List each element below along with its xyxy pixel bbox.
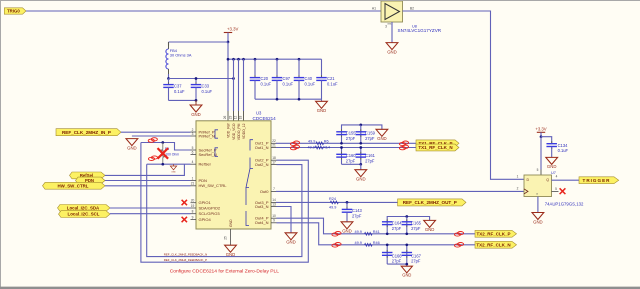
svg-text:GND: GND: [127, 145, 137, 150]
svg-text:0.1uF: 0.1uF: [202, 89, 213, 94]
svg-text:Out4_N: Out4_N: [255, 220, 269, 225]
svg-text:25: 25: [224, 236, 228, 240]
svg-text:C159: C159: [365, 131, 376, 136]
junction: [227, 41, 230, 44]
DNI marker: [454, 232, 463, 237]
svg-text:27pF: 27pF: [365, 136, 375, 141]
net label Local_I2C_SCL: [59, 211, 111, 218]
capacitor C166: [382, 243, 402, 264]
svg-text:C160: C160: [346, 153, 357, 158]
TX2 filter top rail: [386, 215, 430, 235]
capacitor C37: [163, 79, 185, 101]
svg-text:+3.3V: +3.3V: [227, 27, 238, 32]
svg-text:0.1uF: 0.1uF: [261, 81, 272, 86]
svg-text:3: 3: [192, 132, 194, 136]
svg-text:21: 21: [272, 143, 276, 147]
U3 output group brackets: [215, 130, 253, 226]
wire FB4 to caps: [167, 74, 170, 80]
junction: [346, 201, 349, 204]
X no-connect on U7 pin 5: [560, 188, 566, 194]
DNI marker: [332, 232, 341, 237]
wire VDD pin 3: [238, 59, 240, 121]
flip-flop U7: [524, 171, 584, 206]
capacitor C165: [402, 217, 422, 236]
wire Out2_N feedback: [147, 164, 302, 256]
svg-text:GND: GND: [171, 172, 176, 174]
PLL U3: [196, 111, 276, 229]
wire Out4_P jog: [277, 218, 476, 234]
power +3.3V: [535, 126, 546, 138]
pin B2 of U8: [410, 7, 414, 11]
svg-text:C164: C164: [392, 221, 403, 226]
svg-text:TX2_RF_CLK_P: TX2_RF_CLK_P: [476, 231, 510, 236]
svg-text:GND: GND: [356, 177, 366, 182]
net label TX2_RF_CLK_P: [475, 230, 517, 237]
svg-text:1: 1: [517, 175, 519, 179]
DNI marker: [399, 145, 408, 150]
wire Out4_N jog: [277, 223, 476, 245]
svg-text:GND: GND: [547, 164, 557, 169]
svg-text:GND: GND: [425, 227, 435, 232]
svg-text:GND: GND: [377, 136, 387, 141]
net label TRIGGER: [579, 177, 619, 184]
net label REF_CLK_2MHZ_OUT_P: [398, 199, 466, 206]
net name REF_CLK_2MHZ_FEEDBACK_P: [164, 258, 207, 262]
ground for TX2 filter bottom: [401, 266, 412, 277]
svg-text:9: 9: [192, 215, 194, 219]
svg-text:VDDO_PM: VDDO_PM: [237, 123, 241, 140]
power +3.3V: [224, 27, 239, 43]
pin 2 of U7: [517, 187, 519, 191]
wire SCL: [110, 213, 191, 215]
svg-text:13: 13: [272, 202, 276, 206]
wire PriRef_N to gnd: [132, 135, 191, 137]
svg-text:0.1uF: 0.1uF: [174, 89, 185, 94]
ground for C143: [341, 222, 353, 234]
ground for TX1 filter: [376, 129, 388, 141]
svg-text:VDDO_12: VDDO_12: [242, 123, 246, 139]
svg-text:PDN: PDN: [199, 178, 208, 183]
net name REF_CLK_2MHZ_FEEDBACK_N: [164, 252, 207, 256]
svg-text:GND: GND: [286, 240, 296, 245]
svg-text:8: 8: [192, 210, 194, 214]
svg-text:7: 7: [273, 187, 275, 191]
DNI marker: [399, 141, 408, 146]
svg-text:12: 12: [234, 116, 238, 120]
svg-text:REF_CLK_2MHZ_FEEDBACK_P: REF_CLK_2MHZ_FEEDBACK_P: [164, 258, 207, 262]
ground for C134: [546, 157, 558, 169]
svg-text:27pF: 27pF: [411, 226, 421, 231]
wire Out0 to U7 clock: [276, 190, 524, 192]
wire IN_P to PriRef_P: [121, 131, 191, 133]
svg-text:SecRef_N: SecRef_N: [199, 152, 217, 157]
capacitor C159: [356, 125, 376, 145]
capacitor C33: [191, 77, 213, 100]
svg-text:20: 20: [191, 199, 195, 203]
svg-text:GND: GND: [191, 112, 201, 117]
svg-text:SDA/GPIO2: SDA/GPIO2: [199, 205, 221, 210]
U3 X on GPIO4: [182, 217, 187, 222]
wire U8.B to U7.D: [403, 11, 525, 179]
svg-text:9: 9: [273, 219, 275, 223]
net label REF_CLK_2MHZ_IN_P: [56, 129, 121, 136]
ground for PriRef_N: [126, 139, 138, 151]
buffer U8: [381, 1, 442, 33]
wire VDD pin 2: [233, 59, 235, 121]
svg-text:C165: C165: [411, 221, 422, 226]
net label TX1_RF_CLK_P: [416, 140, 459, 147]
wire RefSel tag jog: [105, 164, 184, 175]
svg-text:0.1uF: 0.1uF: [283, 81, 294, 86]
svg-text:49.9: 49.9: [308, 145, 315, 149]
TX1 filter bottom rail: [342, 163, 363, 166]
capacitor C134: [546, 141, 568, 157]
ferrite bead FB4: [166, 42, 192, 74]
svg-text:GND: GND: [533, 219, 543, 224]
note text: [170, 268, 280, 274]
svg-text:VDD_Ref: VDD_Ref: [226, 123, 230, 137]
svg-text:GND: GND: [387, 49, 397, 54]
wire caps bottom: [169, 99, 198, 102]
svg-text:TRIG0: TRIG0: [7, 9, 20, 14]
svg-text:18: 18: [272, 156, 276, 160]
svg-text:1: 1: [192, 176, 194, 180]
resistor R41 49.9: [355, 230, 380, 235]
X no-fit on R9: [158, 148, 169, 159]
resistor R24 49.9: [329, 197, 338, 209]
svg-text:A1: A1: [372, 7, 376, 11]
ground for bypass caps: [316, 99, 328, 113]
pin 5 of U7: [552, 187, 559, 191]
svg-text:C167: C167: [411, 253, 422, 258]
svg-text:49.9: 49.9: [355, 241, 362, 245]
svg-text:U3: U3: [256, 111, 262, 116]
resistor R14 49.9: [308, 145, 330, 149]
svg-text:GPIO4: GPIO4: [199, 217, 212, 222]
svg-text:27pF: 27pF: [346, 136, 356, 141]
svg-text:100 Ohm: 100 Ohm: [165, 153, 179, 157]
TX1 filter top rail: [340, 124, 382, 145]
svg-text:5: 5: [192, 146, 194, 150]
net label TRIG0: [4, 8, 26, 14]
svg-text:4: 4: [556, 175, 558, 179]
wire power vertical: [227, 42, 229, 121]
svg-text:49.9: 49.9: [329, 205, 336, 209]
cap ground rail: [255, 98, 322, 101]
svg-text:GND: GND: [229, 219, 233, 227]
DNI marker: [290, 141, 299, 146]
wire Out3_N to gnd: [277, 207, 292, 233]
svg-text:VDD_VCO: VDD_VCO: [232, 123, 236, 140]
U3 left pins PriRef SecRef RefSel PDN HW_SW_CTRL GPIO: [191, 128, 228, 222]
svg-text:TX2_RF_CLK_N: TX2_RF_CLK_N: [476, 242, 510, 247]
svg-text:5: 5: [555, 187, 557, 191]
svg-text:5: 5: [537, 168, 539, 172]
svg-text:R6: R6: [324, 140, 329, 144]
DNI marker: [148, 156, 157, 161]
ground for Out3_N: [285, 233, 297, 245]
svg-text:GND: GND: [317, 108, 327, 113]
svg-text:SN74LVC1G17YZVR: SN74LVC1G17YZVR: [398, 28, 442, 33]
svg-text:17: 17: [272, 160, 276, 164]
svg-text:TX1_RF_CLK_N: TX1_RF_CLK_N: [418, 145, 452, 150]
svg-text:R24: R24: [329, 197, 336, 201]
svg-text:0.1uF: 0.1uF: [327, 81, 338, 86]
svg-text:Out0: Out0: [260, 189, 269, 194]
pin 1 of U7: [517, 175, 519, 179]
wire Out2_P feedback: [141, 143, 308, 263]
ground for U3: [225, 245, 237, 257]
svg-text:Q: Q: [546, 178, 549, 182]
pin 4 of U7: [552, 175, 580, 181]
ground for U7: [532, 197, 544, 225]
DNI marker: [148, 138, 157, 143]
capacitor C167: [402, 243, 422, 264]
wire TRIG0 to U8.A: [26, 10, 381, 12]
wire Out3_P: [276, 201, 398, 203]
wire HW_SW_CTRL: [105, 185, 191, 187]
svg-text:GND: GND: [402, 272, 411, 277]
svg-text:21: 21: [191, 182, 195, 186]
wire Out1_P: [276, 142, 416, 144]
wire Out1_N: [276, 147, 416, 149]
svg-text:Local_I2C_SCL: Local_I2C_SCL: [68, 212, 100, 217]
svg-text:6: 6: [192, 150, 194, 154]
power rail: [227, 58, 322, 61]
svg-text:GND: GND: [342, 229, 352, 234]
svg-text:18: 18: [239, 116, 243, 120]
capacitor C155: [336, 129, 356, 141]
svg-text:27pF: 27pF: [352, 213, 362, 218]
U3 GND pin 25: [224, 219, 234, 245]
capacitor C20: [250, 59, 272, 99]
net label TX1_RF_CLK_N: [416, 144, 459, 151]
DNI marker: [290, 145, 299, 150]
svg-text:26: 26: [223, 116, 227, 120]
svg-text:B2: B2: [410, 7, 414, 11]
svg-text:REF_CLK_2MHZ_FEEDBACK_N: REF_CLK_2MHZ_FEEDBACK_N: [164, 252, 207, 256]
svg-text:PriRef_N: PriRef_N: [199, 133, 215, 138]
ground for U8: [386, 22, 398, 54]
svg-text:27pF: 27pF: [411, 259, 421, 264]
capacitor C161: [356, 146, 376, 164]
capacitor C164: [382, 219, 402, 231]
svg-text:74AUP1G79GS,132: 74AUP1G79GS,132: [545, 201, 584, 206]
svg-text:TRIGGER: TRIGGER: [583, 178, 611, 183]
wire power to FB4: [169, 42, 229, 46]
svg-text:R14: R14: [323, 145, 330, 149]
capacitor C40: [294, 59, 316, 99]
svg-text:0.1uF: 0.1uF: [305, 81, 316, 86]
capacitor C160: [336, 146, 356, 164]
svg-text:+3.3V: +3.3V: [535, 126, 546, 131]
svg-text:D: D: [527, 178, 530, 182]
U3 X on GPIO1: [182, 200, 187, 205]
svg-text:0.1uF: 0.1uF: [558, 148, 569, 153]
svg-text:GPIO1: GPIO1: [199, 200, 212, 205]
svg-text:R41: R41: [373, 230, 380, 234]
svg-text:SCL/GPIO3: SCL/GPIO3: [199, 211, 221, 216]
wire VDD pin 4: [243, 59, 245, 121]
wire SDA: [110, 207, 191, 209]
svg-text:Out2_N: Out2_N: [255, 162, 269, 167]
svg-text:3: 3: [385, 25, 387, 29]
svg-text:Local_I2C_SDA: Local_I2C_SDA: [67, 205, 100, 210]
svg-text:REF_CLK_2MHZ_IN_P: REF_CLK_2MHZ_IN_P: [62, 130, 111, 135]
svg-text:2: 2: [517, 187, 519, 191]
svg-text:30 Ohms 3A: 30 Ohms 3A: [170, 53, 192, 58]
wire PDN: [105, 180, 191, 182]
capacitor C143: [342, 202, 363, 222]
ground for C37 C33: [190, 100, 202, 116]
svg-text:Out3_N: Out3_N: [255, 204, 269, 209]
wire feedback N to RefSel node: [147, 163, 191, 166]
wire to C134: [541, 137, 552, 144]
resistor R46 49.9: [355, 241, 380, 246]
capacitor C21: [316, 59, 338, 99]
svg-text:49.9: 49.9: [355, 230, 362, 234]
net label PDN: [76, 177, 106, 184]
net label RefSel: [70, 172, 106, 179]
svg-text:REF_CLK_2MHZ_OUT_P: REF_CLK_2MHZ_OUT_P: [403, 200, 457, 205]
net label HW_SW_CTRL: [43, 182, 106, 189]
svg-text:27pF: 27pF: [392, 226, 402, 231]
wire feedback P to SecRef: [141, 141, 191, 150]
DNI marker: [332, 243, 341, 248]
wire cap rail: [169, 77, 235, 80]
svg-text:C155: C155: [346, 131, 357, 136]
svg-text:C166: C166: [392, 253, 403, 258]
net label TX2_RF_CLK_N: [475, 241, 517, 248]
svg-text:10: 10: [272, 214, 276, 218]
resistor R9 100 Ohm: [161, 143, 179, 165]
pin A1 of U8: [372, 7, 376, 11]
U3 top power pins: [223, 116, 246, 141]
U3 right pins Out0 Out1 Out2 Out3 Out4: [255, 139, 277, 225]
svg-text:Out1_N: Out1_N: [255, 145, 269, 150]
TX2 filter bottom rail: [387, 263, 408, 266]
svg-text:49.9: 49.9: [308, 140, 315, 144]
svg-text:27pF: 27pF: [392, 259, 402, 264]
net label Local_I2C_SDA: [58, 205, 111, 212]
ground for TX1 filter bottom: [355, 164, 367, 181]
capacitor C97: [272, 59, 294, 99]
DNI marker: [454, 243, 463, 248]
wire +3.3V to U7 VCC: [537, 137, 541, 175]
svg-text:RefSel: RefSel: [199, 162, 211, 167]
resistor R6 49.9: [308, 140, 329, 145]
svg-text:19: 19: [191, 204, 195, 208]
svg-text:R46: R46: [373, 241, 380, 245]
svg-text:HW_SW_CTRL: HW_SW_CTRL: [199, 183, 228, 188]
svg-text:CDCE6214: CDCE6214: [253, 116, 277, 121]
svg-text:HW_SW_CTRL: HW_SW_CTRL: [58, 183, 89, 188]
svg-text:4: 4: [192, 160, 194, 164]
svg-text:27pF: 27pF: [346, 158, 356, 163]
ground for TX2 filter top: [424, 220, 436, 232]
svg-text:27pF: 27pF: [365, 158, 375, 163]
small ground on RefSel node: [170, 164, 176, 173]
svg-text:C161: C161: [365, 153, 376, 158]
svg-text:23: 23: [229, 116, 233, 120]
svg-text:Configure CDCE6214 for Externa: Configure CDCE6214 for External Zero-Del…: [170, 268, 280, 274]
